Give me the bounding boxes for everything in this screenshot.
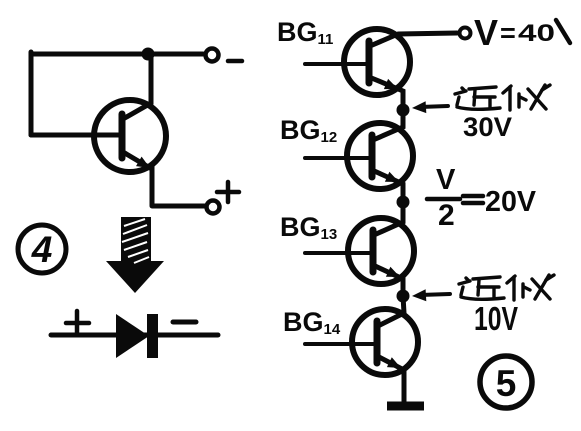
svg-text:BG11: BG11 [277, 17, 333, 48]
diode D1 cathode bar [147, 314, 158, 358]
wire: left vertical (base feedback) [29, 52, 34, 135]
svg-text:5: 5 [496, 363, 517, 404]
transistor Q1 (diode-connected) body circle [94, 100, 166, 172]
text 近似 (approx.) label 2 [459, 275, 554, 300]
transistor BG13 collector stroke + wire up to node B [374, 202, 403, 235]
transistor BG12 collector stroke + wire up to node A [373, 110, 403, 140]
svg-text:2: 2 [438, 199, 455, 232]
transistor BG13 emitter stroke + wire down to node C [373, 265, 403, 294]
svg-text:4: 4 [31, 229, 53, 270]
transistor BG11 emitter stroke + wire down to node [369, 77, 403, 106]
label: minus sign (cathode) [173, 320, 196, 325]
transistor BG11 base lead [305, 62, 369, 66]
transistor BG14 emitter stroke + wire down to ground [377, 356, 404, 402]
svg-text:=: = [500, 18, 516, 48]
label: minus sign at negative terminal [228, 59, 242, 64]
node: collector-base junction dot [142, 48, 155, 61]
transistor BG13 emitter arrowhead [386, 267, 400, 277]
transistor BG12 body circle [347, 123, 413, 189]
text 近似 (approx.) label 1 [455, 85, 550, 110]
terminal: negative output circle [206, 49, 219, 62]
node C: junction dot 10V [397, 290, 410, 303]
annotation arrow to node A [412, 101, 448, 113]
svg-text:40: 40 [518, 20, 555, 47]
svg-text:V: V [436, 164, 456, 196]
wire: emitter down then right to positive terminal [152, 166, 206, 206]
transistor Q1 emitter stroke [123, 152, 150, 168]
wire: base lead horizontal [31, 133, 122, 138]
transistor Q1 collector stroke + wire up to bus [123, 54, 151, 119]
transistor BG12 base bar [369, 135, 376, 177]
svg-text:BG12: BG12 [280, 115, 337, 146]
transistor BG14 base lead [305, 342, 377, 346]
diode D1 anode triangle [116, 314, 149, 358]
transistor BG14 body circle [352, 309, 418, 375]
transistor BG14 emitter arrowhead [387, 357, 401, 368]
label V/2 = 20V [427, 164, 537, 232]
svg-text:10V: 10V [474, 300, 518, 337]
transistor BG13 base lead [305, 251, 373, 255]
figure number 5 in circle [480, 356, 532, 408]
transistor Q1 base bar [119, 114, 126, 158]
svg-text:BG13: BG13 [280, 212, 337, 243]
svg-text:30V: 30V [463, 112, 512, 142]
transistor BG12 emitter arrowhead [385, 172, 399, 182]
annotation arrow to node C [412, 289, 450, 301]
transistor BG11 body circle [344, 29, 410, 95]
transistor Q1 emitter arrowhead [136, 157, 150, 168]
transistor BG12 base lead [305, 156, 372, 160]
transistor BG11 collector stroke + wire to supply terminal [370, 33, 457, 46]
transistor BG12 emitter stroke + wire down to node B [372, 170, 403, 200]
wire: top horizontal bus (collector-base tie to negative terminal) [31, 52, 203, 57]
ground symbol [387, 402, 424, 411]
label: plus sign (anode) [66, 311, 89, 333]
transistor BG14 collector stroke + wire up to node C [378, 296, 404, 326]
terminal: supply circle [460, 28, 471, 39]
equivalent diode D1: lead wire [51, 333, 218, 338]
transistor BG11 base bar [366, 41, 373, 83]
svg-text:20V: 20V [485, 186, 537, 218]
terminal: positive output circle [207, 201, 220, 214]
svg-text:V: V [474, 12, 498, 53]
transistor BG14 base bar [374, 321, 381, 363]
node A: junction dot 30V [397, 104, 410, 117]
partial clipped V stroke at edge [556, 20, 570, 43]
node B: junction dot 20V [397, 196, 410, 209]
transistor BG13 base bar [370, 230, 377, 272]
label: plus sign at positive terminal [217, 182, 239, 202]
figure number 4 in circle [18, 225, 66, 273]
svg-text:BG14: BG14 [283, 307, 341, 338]
big equivalence arrow (down) with sketchy shaft [106, 217, 164, 293]
transistor BG11 emitter arrowhead [384, 79, 398, 89]
transistor BG13 body circle [348, 218, 414, 284]
